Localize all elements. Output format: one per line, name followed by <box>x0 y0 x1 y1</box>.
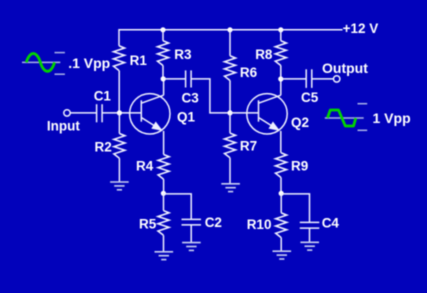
svg-text:+12 V: +12 V <box>343 21 379 36</box>
capacitor C3 <box>186 70 192 87</box>
svg-text:R8: R8 <box>255 47 273 62</box>
svg-text:C1: C1 <box>94 88 112 103</box>
input terminal <box>64 110 70 116</box>
svg-text:C3: C3 <box>182 91 200 106</box>
node: Q2 base junction <box>227 110 232 115</box>
input signal icon: sine wave <box>26 54 54 72</box>
capacitor C5 <box>306 69 312 88</box>
wire: node to C2 <box>163 194 191 219</box>
wire: R6 to base node <box>229 81 231 113</box>
wire: node to R10 <box>280 193 282 213</box>
output signal icon: clipped sine wave <box>328 110 356 126</box>
capacitor C4 <box>300 222 320 228</box>
wire: rail to R6 <box>229 30 231 56</box>
wire: collector node to C5 <box>281 78 306 80</box>
wire: C2 to ground <box>190 225 192 242</box>
output signal icon: axis <box>325 117 364 119</box>
resistor R3 <box>158 41 169 66</box>
wire: R3 to collector node <box>162 66 164 79</box>
svg-text:R9: R9 <box>291 158 308 173</box>
node: rail R8 junction <box>278 27 283 32</box>
node: Q2 collector junction <box>278 76 283 81</box>
svg-text:Input: Input <box>47 118 80 133</box>
svg-text:R5: R5 <box>139 217 157 232</box>
resistor R4 <box>158 155 169 180</box>
node: Q1 base junction <box>117 110 122 115</box>
wire: C4 to ground <box>309 228 311 242</box>
wire: C3 to Q2 base node <box>192 79 231 113</box>
ground (R2) <box>110 182 129 190</box>
svg-text:R6: R6 <box>240 65 258 80</box>
ground (R10) <box>273 251 292 259</box>
resistor R10 <box>276 213 287 238</box>
input signal icon: peak tick <box>55 52 65 54</box>
ground (R5) <box>155 252 174 260</box>
wire: Q2 collector up to node <box>280 79 282 95</box>
wire: C5 to output terminal <box>312 78 333 80</box>
wire: R1 bottom to base node <box>118 71 120 113</box>
wire: Q2 emitter down to R9 <box>280 131 282 153</box>
wire: R9 to emitter node <box>280 178 282 194</box>
resistor R5 <box>158 211 169 236</box>
svg-text:Q2: Q2 <box>291 115 309 130</box>
svg-text:R4: R4 <box>136 159 154 174</box>
output terminal <box>334 76 340 82</box>
resistor R8 <box>275 41 286 66</box>
wire: base node to R7 <box>229 113 231 133</box>
resistor R2 <box>114 134 125 159</box>
wire: node to C4 <box>281 194 309 222</box>
wire: R10 to ground <box>280 238 282 251</box>
svg-text:1 Vpp: 1 Vpp <box>373 110 411 126</box>
node: Q1 collector junction <box>161 76 166 81</box>
node: rail R3 junction <box>160 27 165 32</box>
node: R4 R5 C2 junction <box>161 191 166 196</box>
svg-text:C4: C4 <box>322 215 340 230</box>
resistor R1 <box>114 46 125 71</box>
svg-text:Q1: Q1 <box>177 109 196 124</box>
node: R9 R10 C4 junction <box>279 191 284 196</box>
wire: rail to R3 <box>162 30 164 41</box>
transistor Q1 <box>130 94 170 134</box>
svg-text:Output: Output <box>322 60 368 76</box>
wire: rail to R8 <box>280 30 282 41</box>
ground (C4) <box>300 242 319 250</box>
input signal icon: axis <box>22 61 60 63</box>
wire: input terminal to C1 <box>70 112 96 114</box>
output signal icon: trough tick <box>358 129 368 131</box>
ground (R7) <box>221 184 240 192</box>
node: rail R6 junction <box>227 27 232 32</box>
resistor R9 <box>276 153 287 178</box>
svg-text:.1 Vpp: .1 Vpp <box>68 55 110 71</box>
wire: +12V power rail <box>119 30 343 46</box>
wire: base node to R2 <box>118 113 120 134</box>
transistor Q2 <box>247 94 287 134</box>
ground (C2) <box>182 243 201 251</box>
svg-text:C2: C2 <box>205 215 222 230</box>
wire: R5 to ground <box>163 235 165 251</box>
wire: collector node to C3 <box>163 78 185 80</box>
resistor R6 <box>225 56 236 81</box>
wire: R8 to collector node <box>280 66 282 80</box>
resistor R7 <box>225 133 236 158</box>
wire: Q1 emitter down to R4 <box>163 131 165 155</box>
svg-text:R7: R7 <box>240 139 257 154</box>
svg-text:R10: R10 <box>247 217 272 232</box>
wire: C1 to Q1 base <box>103 112 142 114</box>
svg-text:C5: C5 <box>301 90 319 105</box>
wire: R4 to emitter node <box>163 179 165 193</box>
wire: node to R5 <box>163 193 165 210</box>
wire: R7 to ground <box>229 158 231 184</box>
svg-text:R2: R2 <box>95 140 112 155</box>
wire: Q1 collector up to node <box>163 79 165 95</box>
svg-text:R3: R3 <box>174 47 192 62</box>
svg-text:R1: R1 <box>130 53 148 68</box>
capacitor C2 <box>182 219 202 225</box>
wire: R2 to ground <box>118 158 120 181</box>
capacitor C1 <box>97 104 103 122</box>
input signal icon: trough tick <box>55 73 65 75</box>
wire: base node to Q2 <box>230 112 259 114</box>
output signal icon: peak tick <box>358 103 368 105</box>
